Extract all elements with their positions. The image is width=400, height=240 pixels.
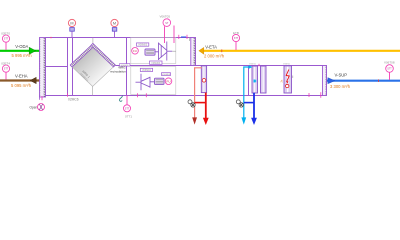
svg-text:3 300 m³/h: 3 300 m³/h [330, 84, 351, 89]
svg-text:2x: 2x [280, 79, 284, 82]
svg-text:2 000 m³/h: 2 000 m³/h [204, 53, 225, 58]
svg-text:V06E01: V06E01 [283, 63, 291, 65]
svg-text:V-ETA: V-ETA [205, 44, 217, 49]
svg-text:recirculation: recirculation [110, 69, 126, 73]
svg-text:ETB: ETB [233, 31, 239, 35]
svg-text:V06K01: V06K01 [249, 63, 257, 65]
svg-text:ST: ST [165, 22, 169, 25]
svg-text:V06T05: V06T05 [160, 14, 171, 18]
svg-text:5 095 m³/h: 5 095 m³/h [11, 83, 32, 88]
svg-text:V06M05: V06M05 [162, 74, 171, 76]
svg-text:V-ODA: V-ODA [15, 44, 28, 49]
svg-text:5 995 m³/h: 5 995 m³/h [12, 53, 33, 58]
svg-text:V06T08: V06T08 [384, 61, 395, 65]
svg-text:V06M03: V06M03 [138, 44, 148, 47]
svg-text:STT: STT [4, 68, 9, 71]
svg-text:STT: STT [387, 68, 392, 71]
svg-text:V06M03: V06M03 [151, 62, 161, 65]
svg-text:02ET0: 02ET0 [1, 31, 10, 35]
svg-text:STT: STT [125, 107, 130, 110]
svg-text:02ET4: 02ET4 [1, 61, 10, 65]
svg-text:0TT1: 0TT1 [125, 115, 132, 119]
svg-text:V06M04: V06M04 [142, 69, 152, 72]
svg-text:STT: STT [4, 38, 9, 41]
svg-text:02MC6: 02MC6 [68, 98, 79, 102]
svg-text:M: M [70, 22, 73, 26]
svg-text:STT: STT [234, 37, 239, 40]
svg-text:FU: FU [167, 79, 171, 83]
svg-text:V-SUP: V-SUP [335, 73, 348, 78]
svg-text:M: M [113, 22, 116, 26]
svg-text:FU: FU [133, 49, 137, 53]
svg-text:V-EHA: V-EHA [15, 74, 28, 79]
svg-text:Open: Open [30, 105, 38, 109]
